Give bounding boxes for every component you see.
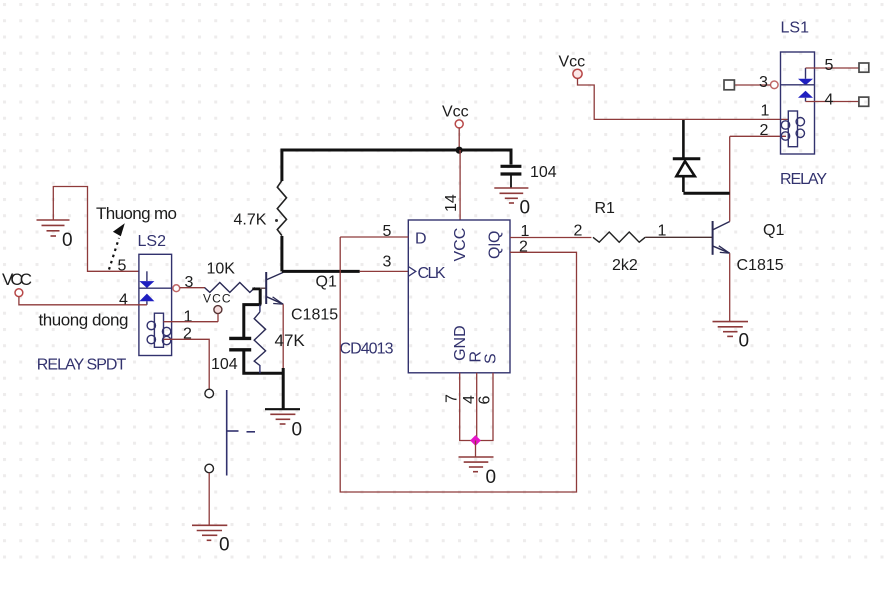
wire node to ground [475, 441, 477, 457]
relay LS1 pin 3 terminal circle [771, 81, 779, 89]
junction magenta node [470, 435, 481, 446]
terminal square pin 3 [724, 80, 734, 90]
svg-text:VCC: VCC [2, 270, 32, 289]
junction top rail [456, 147, 463, 154]
wire R1 to Q1 base [645, 236, 712, 238]
relay LS2 contact [139, 271, 173, 305]
wire thick cap bottom to emitter rail [244, 352, 283, 374]
power VCC terminal at LS2 pin 1 [203, 292, 231, 314]
wire LS2 pin 1 to VCC [164, 314, 219, 322]
wire LS2 pin3 to 10K [180, 287, 205, 289]
svg-text:10K: 10K [207, 261, 236, 278]
wire D pin 5 [340, 236, 408, 238]
ground 0 below Q1 right [713, 322, 750, 352]
wire LS2 pin 2 to button [164, 339, 210, 389]
relay LS1 contact [781, 68, 815, 102]
wire capacitor to ground [510, 176, 512, 188]
wire thick diode anode to collector [683, 192, 729, 195]
capacitor 104 right [501, 164, 557, 181]
svg-text:5: 5 [825, 57, 834, 74]
svg-text:5: 5 [383, 223, 392, 240]
wire 10K to Q1 base [252, 287, 260, 290]
ground 0 top-left [37, 220, 73, 251]
wire VCC pin 14 [459, 150, 461, 220]
svg-text:4: 4 [461, 395, 478, 404]
svg-text:RELAY SPDT: RELAY SPDT [37, 357, 127, 374]
relay LS2 pin 3 terminal circle [173, 285, 180, 292]
svg-text:VCC: VCC [203, 292, 231, 306]
svg-text:Q1: Q1 [763, 222, 784, 239]
svg-text:1: 1 [184, 309, 193, 326]
capacitor 104 left [211, 338, 251, 373]
svg-text:104: 104 [211, 356, 238, 373]
svg-text:2: 2 [519, 239, 528, 256]
wire button to ground [208, 473, 210, 525]
svg-text:5: 5 [118, 258, 127, 275]
svg-text:4: 4 [119, 292, 128, 309]
svg-text:GND: GND [452, 325, 469, 361]
dashed arrow annotation [109, 223, 125, 269]
wire thick 4.7K bottom to collector node [280, 236, 283, 271]
wire pin 3 to terminal square [734, 84, 770, 86]
terminal square pin 5 [859, 63, 869, 72]
svg-text:7: 7 [444, 394, 461, 403]
svg-text:thuong dong: thuong dong [39, 311, 129, 330]
wire thick collector to CLK [282, 270, 360, 273]
transistor Q1 C1815 right [713, 221, 730, 255]
power Vcc terminal right [559, 54, 586, 79]
wire CLK red segment [360, 270, 409, 272]
svg-text:LS2: LS2 [138, 233, 167, 250]
wire collector up to relay pin 2 [729, 136, 731, 221]
svg-text:S: S [483, 353, 500, 364]
wire S pin 6 [478, 373, 494, 441]
wire Qbar pin 2 feedback [340, 237, 576, 492]
ground 0 below CD4013 [459, 457, 497, 488]
svg-text:4: 4 [825, 92, 834, 109]
svg-text:47K: 47K [275, 331, 306, 350]
terminal square pin 4 [859, 97, 869, 106]
svg-text:RELAY: RELAY [780, 171, 827, 188]
svg-text:4.7K: 4.7K [234, 212, 267, 229]
svg-text:3: 3 [185, 274, 194, 291]
relay LS2 body [139, 254, 172, 355]
relay LS1 coil [781, 111, 804, 147]
wire R pin 4 [476, 373, 478, 441]
svg-text:0: 0 [520, 198, 531, 219]
svg-text:Q: Q [487, 247, 504, 259]
resistor 10K [205, 261, 255, 293]
wire pin 4 to terminal [806, 101, 859, 103]
wire thick base RC node [244, 305, 261, 338]
svg-text:1: 1 [761, 103, 770, 120]
pushbutton switch [205, 389, 255, 475]
svg-text:2: 2 [760, 122, 769, 139]
ground 0 at capacitor [494, 188, 530, 219]
relay LS2 coil [147, 313, 171, 347]
svg-text:14: 14 [443, 194, 460, 212]
wire pin 5 to terminal [806, 67, 860, 69]
wire ground to LS2 pin 5 [53, 187, 139, 272]
svg-text:C1815: C1815 [291, 307, 338, 324]
transistor Q1 C1815 left [266, 272, 283, 304]
wire thick emitter to ground [282, 368, 285, 409]
svg-text:CLK: CLK [418, 265, 446, 282]
svg-text:2k2: 2k2 [612, 257, 638, 274]
ground 0 below emitter [265, 409, 302, 440]
svg-text:Vcc: Vcc [559, 54, 586, 71]
resistor 4.7K [234, 180, 287, 235]
svg-text:0: 0 [739, 331, 750, 352]
diode D1 flyback [673, 119, 701, 192]
svg-text:D: D [415, 231, 427, 248]
wire Vcc to relay pin 1 [578, 78, 789, 119]
svg-text:3: 3 [383, 254, 392, 271]
relay LS1 body [781, 52, 815, 154]
power Vcc terminal top [442, 104, 469, 128]
svg-text:104: 104 [530, 164, 557, 181]
wire Vcc to rail [458, 128, 460, 150]
wire VCC to LS2 pin 4 [19, 297, 147, 305]
ic U1 CD4013 body [408, 220, 510, 373]
wire thick rail to capacitor [510, 150, 512, 165]
wire emitter down [282, 304, 284, 369]
power VCC terminal left [2, 270, 32, 297]
svg-text:Q: Q [487, 231, 504, 243]
svg-text:0: 0 [486, 467, 497, 488]
svg-text:6: 6 [477, 396, 494, 405]
svg-text:2: 2 [574, 223, 583, 240]
svg-text:C1815: C1815 [737, 257, 784, 274]
svg-text:VCC: VCC [452, 228, 469, 262]
svg-text:1: 1 [521, 223, 530, 240]
svg-text:2: 2 [183, 326, 192, 343]
wire GND pin 7 [460, 373, 474, 441]
svg-text:R1: R1 [595, 200, 616, 217]
resistor R1 [593, 232, 645, 242]
svg-text:Vcc: Vcc [442, 104, 469, 121]
svg-text:0: 0 [292, 420, 303, 441]
wire relay pin 2 [730, 135, 786, 137]
wire thick 4.7K top rail [282, 150, 511, 181]
ground 0 below button [192, 525, 230, 555]
svg-text:0: 0 [62, 230, 73, 251]
ic CD4013 clock triangle [408, 267, 416, 277]
svg-text:LS1: LS1 [781, 20, 810, 37]
wire emitter to ground [729, 253, 731, 321]
svg-text:3: 3 [759, 74, 768, 91]
svg-text:CD4013: CD4013 [340, 341, 394, 358]
svg-text:0: 0 [219, 535, 230, 556]
wire Q pin 1 to R1 [510, 237, 591, 239]
ic CD4013 pin Q Qbar label [487, 231, 504, 259]
svg-text:Thuong mo: Thuong mo [96, 204, 177, 223]
resistor 47K [254, 305, 305, 374]
svg-text:Q1: Q1 [316, 274, 337, 291]
